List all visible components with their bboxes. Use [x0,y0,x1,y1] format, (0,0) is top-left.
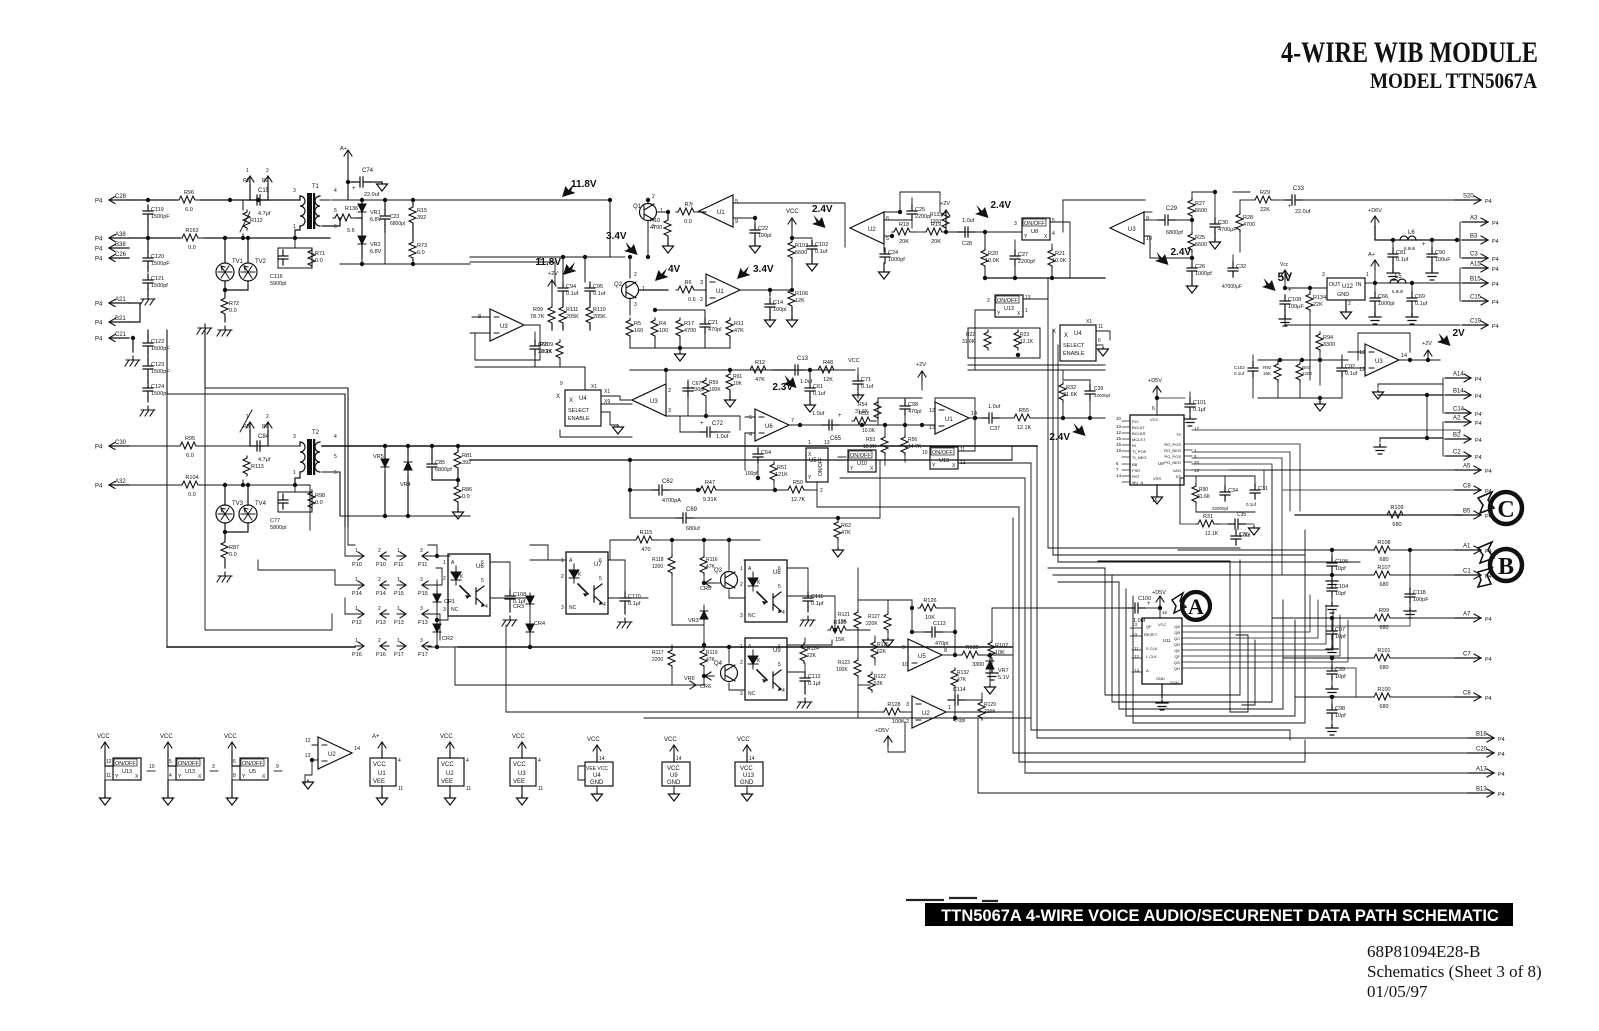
svg-text:6: 6 [1152,406,1155,412]
svg-text:R104: R104 [185,475,198,481]
svg-text:RO_POS: RO_POS [1164,442,1181,447]
svg-text:4: 4 [169,773,172,779]
svg-text:C34: C34 [1228,488,1238,494]
svg-text:31.6K: 31.6K [1063,392,1078,398]
svg-text:1: 1 [246,414,249,420]
svg-text:1: 1 [948,705,951,711]
svg-text:4.7μf: 4.7μf [258,457,271,463]
svg-text:0.1uf: 0.1uf [1345,371,1358,377]
svg-text:ON/OFF: ON/OFF [932,450,953,456]
svg-text:C103: C103 [1234,365,1245,370]
svg-text:P15: P15 [418,591,428,597]
svg-text:X: X [569,398,573,404]
svg-text:R29: R29 [1260,190,1270,196]
svg-text:GND: GND [1156,676,1165,681]
svg-text:C26: C26 [115,252,127,258]
svg-text:R121: R121 [838,612,850,618]
svg-text:U2: U2 [446,771,454,777]
svg-text:ON/OFF: ON/OFF [818,457,824,476]
svg-text:MCLKT: MCLKT [1132,437,1146,442]
svg-text:1.0uf: 1.0uf [988,404,1001,410]
svg-text:0.1μf: 0.1μf [628,601,641,607]
svg-text:5: 5 [169,759,172,765]
svg-text:100K: 100K [709,387,721,393]
svg-text:20K: 20K [931,239,941,245]
svg-text:+: + [1288,204,1292,210]
svg-text:3: 3 [668,408,671,414]
svg-text:R110: R110 [593,307,606,313]
svg-text:C111: C111 [811,594,823,600]
svg-text:R32: R32 [1066,385,1076,391]
svg-text:C27: C27 [1018,252,1028,258]
svg-text:5.6: 5.6 [347,228,355,234]
svg-text:C29: C29 [1166,206,1178,212]
svg-text:A2: A2 [1453,416,1461,422]
svg-text:C14: C14 [773,300,783,306]
svg-text:A7: A7 [1463,612,1471,618]
svg-text:R12: R12 [755,360,765,366]
svg-text:VCC: VCC [587,737,600,743]
svg-text:X1: X1 [1086,319,1092,325]
svg-text:1: 1 [397,577,400,583]
svg-text:U9: U9 [773,648,781,654]
svg-text:4: 4 [334,434,337,440]
svg-text:5: 5 [1052,218,1055,224]
svg-text:0.1uf: 0.1uf [566,291,579,297]
svg-text:5: 5 [749,415,752,421]
svg-text:C69: C69 [686,507,698,513]
svg-text:P16: P16 [376,652,386,658]
svg-text:VR1: VR1 [370,210,381,216]
svg-text:0.1uf: 0.1uf [1415,301,1428,307]
svg-text:C21: C21 [708,320,718,326]
svg-text:10K: 10K [995,650,1005,656]
svg-text:Q2: Q2 [614,282,623,288]
svg-text:VCC: VCC [512,734,525,740]
svg-text:R96: R96 [184,190,194,196]
svg-text:R129: R129 [984,702,996,708]
svg-text:L CLK: L CLK [1146,654,1157,659]
svg-text:P15: P15 [394,591,404,597]
svg-text:U3: U3 [1375,359,1383,365]
svg-text:10pf: 10pf [1335,674,1346,680]
svg-text:C123: C123 [151,362,164,368]
svg-text:C90: C90 [1435,250,1445,256]
svg-text:+: + [838,413,842,419]
svg-text:2: 2 [378,638,381,644]
svg-text:R21: R21 [1055,251,1065,257]
svg-text:S CLK: S CLK [1146,646,1158,651]
svg-text:4-WIRE WIB MODULE: 4-WIRE WIB MODULE [1281,36,1538,69]
svg-text:6: 6 [334,224,337,230]
svg-text:PCI: PCI [1132,419,1139,424]
svg-text:10K: 10K [838,619,848,625]
svg-text:VCC: VCC [740,766,753,772]
svg-text:P4: P4 [1492,282,1499,288]
svg-text:13: 13 [305,753,311,759]
svg-text:47K: 47K [957,677,967,683]
svg-text:P4: P4 [95,302,103,308]
svg-text:U4: U4 [1074,331,1082,337]
svg-text:2: 2 [266,168,269,174]
svg-text:C99: C99 [1335,667,1345,673]
svg-text:S20: S20 [1463,194,1474,200]
svg-text:6.0: 6.0 [186,453,194,459]
svg-text:R107: R107 [1377,565,1390,571]
svg-text:T9: T9 [1176,432,1181,437]
svg-text:470pl: 470pl [935,641,948,647]
svg-text:U3: U3 [650,399,658,405]
svg-text:P4: P4 [1498,772,1505,778]
svg-text:22K: 22K [807,653,817,659]
svg-text:3: 3 [420,577,423,583]
svg-text:1: 1 [293,470,296,476]
svg-text:R122: R122 [874,674,886,680]
svg-text:R17: R17 [684,321,694,327]
svg-text:0.1uf: 0.1uf [815,249,828,255]
svg-text:GND: GND [740,780,754,786]
svg-text:L6: L6 [1408,230,1415,236]
svg-text:6.8V: 6.8V [370,249,382,255]
svg-text:P4: P4 [1485,617,1492,623]
svg-text:2.4V: 2.4V [991,200,1012,211]
svg-text:P14: P14 [376,591,386,597]
svg-text:100pF: 100pF [1413,597,1429,603]
svg-text:C124: C124 [151,384,164,390]
svg-text:U4: U4 [579,396,587,402]
svg-text:VSS: VSS [1153,476,1161,481]
svg-text:P10: P10 [376,562,386,568]
svg-text:R99: R99 [533,307,543,313]
svg-text:10: 10 [1116,416,1122,421]
svg-text:22.0uf: 22.0uf [364,192,380,198]
svg-text:C74: C74 [362,168,374,174]
svg-text:3: 3 [420,638,423,644]
svg-text:P4: P4 [1485,469,1492,475]
svg-text:U1: U1 [717,210,725,216]
svg-text:C7: C7 [1463,652,1471,658]
svg-text:OUT: OUT [1329,282,1341,288]
svg-text:+: + [700,421,704,427]
svg-text:0.1uf: 0.1uf [1234,371,1245,376]
svg-text:CR4: CR4 [534,621,545,627]
svg-text:12: 12 [305,738,311,744]
svg-text:226K: 226K [984,709,996,715]
svg-text:1: 1 [1366,272,1369,278]
svg-text:BB: BB [1132,462,1138,467]
svg-text:U8: U8 [773,570,781,576]
svg-text:0.1uf: 0.1uf [1396,257,1409,263]
svg-text:C22: C22 [758,226,768,232]
svg-text:10: 10 [922,450,928,456]
svg-text:2: 2 [987,298,990,304]
svg-text:12.2K: 12.2K [863,444,877,450]
svg-text:1500pf: 1500pf [151,391,168,397]
svg-text:1.0uf: 1.0uf [812,411,825,417]
svg-text:C120: C120 [151,254,164,260]
svg-text:1: 1 [808,440,811,446]
svg-text:3: 3 [420,548,423,554]
svg-text:R103: R103 [795,243,808,249]
svg-text:C121: C121 [151,276,164,282]
svg-text:P2: P2 [262,178,269,184]
svg-text:11: 11 [538,786,543,792]
svg-text:0.1μf: 0.1μf [1193,407,1206,413]
svg-text:1: 1 [355,638,358,644]
svg-text:1200: 1200 [930,219,941,225]
svg-text:C1: C1 [1463,569,1471,575]
svg-text:VCC: VCC [513,762,526,768]
svg-text:U3: U3 [1128,227,1136,233]
svg-text:U8: U8 [1031,229,1038,235]
svg-text:0.0: 0.0 [229,552,237,558]
svg-text:5: 5 [886,236,889,242]
svg-text:U11: U11 [1163,638,1171,643]
svg-text:12.1K: 12.1K [1020,339,1034,345]
svg-text:P4: P4 [1475,421,1482,427]
svg-text:0.0: 0.0 [462,494,470,500]
svg-text:QD: QD [1174,642,1180,647]
svg-text:U10: U10 [857,461,867,467]
svg-text:100μF: 100μF [1288,304,1304,310]
svg-text:12: 12 [1116,430,1122,435]
svg-text:4700pA: 4700pA [662,498,681,504]
svg-text:+D5V: +D5V [875,728,889,734]
svg-text:1: 1 [355,606,358,612]
svg-text:X: X [870,466,874,472]
svg-text:Q1: Q1 [633,204,642,210]
svg-text:A21: A21 [115,297,126,303]
svg-text:47K: 47K [841,530,851,536]
svg-text:4.7μf: 4.7μf [258,211,271,217]
svg-text:0.1uf: 0.1uf [593,291,606,297]
svg-text:QC: QC [1174,636,1180,641]
svg-text:2: 2 [906,719,909,725]
svg-text:VEE: VEE [373,779,385,785]
svg-text:A32: A32 [115,479,126,485]
svg-text:TV4: TV4 [255,501,267,507]
svg-text:11.8V: 11.8V [535,257,561,268]
svg-text:1500pf: 1500pf [151,283,168,289]
svg-text:C23: C23 [390,214,399,220]
svg-text:C108: C108 [1288,297,1301,303]
svg-text:6: 6 [886,216,889,222]
svg-text:X: X [1017,311,1021,317]
svg-text:13: 13 [1025,295,1031,301]
svg-text:10: 10 [1146,236,1152,242]
svg-text:R25: R25 [1195,235,1205,241]
svg-text:R15: R15 [417,208,427,214]
svg-text:12.1K: 12.1K [1017,425,1032,431]
svg-text:3: 3 [293,434,296,440]
svg-text:3: 3 [293,188,296,194]
svg-text:B: B [1498,554,1514,580]
svg-text:U13: U13 [1004,306,1014,312]
svg-text:R27: R27 [1195,201,1205,207]
svg-text:1000pl: 1000pl [1378,301,1395,307]
svg-text:C116: C116 [270,274,283,280]
svg-text:C37: C37 [990,426,1000,432]
svg-text:TI_POS: TI_POS [1132,449,1147,454]
svg-text:A38: A38 [115,232,126,238]
svg-text:3: 3 [634,302,637,308]
svg-text:C122: C122 [151,339,164,345]
svg-text:C28: C28 [115,194,127,200]
svg-text:0.0: 0.0 [188,245,196,251]
svg-text:R87: R87 [229,545,239,551]
svg-text:14: 14 [1401,353,1407,359]
svg-text:B3: B3 [1470,234,1478,240]
svg-text:ENABLE: ENABLE [1063,351,1085,357]
svg-text:1: 1 [246,168,249,174]
svg-text:R94: R94 [1323,335,1333,341]
svg-text:1: 1 [293,224,296,230]
svg-text:CR1: CR1 [444,599,455,605]
svg-text:P13: P13 [376,620,386,626]
svg-text:CR5: CR5 [700,586,711,592]
svg-text:+2V: +2V [1422,341,1432,347]
svg-text:P4: P4 [1492,300,1499,306]
svg-text:2: 2 [668,388,671,394]
svg-text:P4: P4 [1475,412,1482,418]
svg-text:C14: C14 [1453,407,1465,413]
svg-text:C15: C15 [1470,295,1482,301]
svg-text:U1: U1 [716,289,724,295]
svg-text:1: 1 [355,577,358,583]
svg-text:R123: R123 [838,660,850,666]
svg-text:0.0: 0.0 [188,492,196,498]
svg-text:U9: U9 [1158,461,1164,466]
svg-text:C2: C2 [1453,450,1461,456]
svg-text:CR2: CR2 [442,636,453,642]
svg-text:MODEL TTN5067A: MODEL TTN5067A [1370,68,1537,93]
svg-text:6: 6 [1116,461,1119,466]
svg-text:R59: R59 [709,380,718,386]
svg-text:Y: Y [932,463,936,469]
svg-text:VCC: VCC [440,734,453,740]
svg-text:C104: C104 [1335,584,1348,590]
svg-text:15: 15 [1116,436,1122,441]
svg-text:BCLKR: BCLKR [1132,431,1145,436]
svg-text:R98: R98 [315,493,325,499]
svg-text:10K: 10K [733,381,743,387]
svg-text:2: 2 [1348,301,1351,307]
svg-text:C13: C13 [797,356,809,362]
svg-text:Schematics (Sheet 3 of 8): Schematics (Sheet 3 of 8) [1367,962,1542,981]
svg-text:X: X [952,463,956,469]
svg-text:1: 1 [397,606,400,612]
svg-text:R81: R81 [462,453,472,459]
svg-text:2: 2 [652,194,655,200]
svg-text:C101: C101 [1193,400,1206,406]
svg-text:10: 10 [149,764,155,770]
svg-text:0.1μf: 0.1μf [808,681,821,687]
svg-text:P4: P4 [95,337,103,343]
svg-text:13: 13 [824,440,830,446]
svg-text:11: 11 [106,773,111,779]
svg-text:C95: C95 [593,284,603,290]
svg-text:11: 11 [466,786,471,792]
svg-text:VEE: VEE [441,779,453,785]
svg-text:5: 5 [334,208,337,214]
svg-text:SELECT: SELECT [568,408,590,414]
svg-text:B15: B15 [1470,277,1481,283]
svg-text:C113: C113 [933,621,946,627]
svg-text:U13: U13 [743,773,755,779]
svg-text:C84: C84 [258,434,270,440]
svg-text:C3: C3 [1470,252,1478,258]
svg-text:P4: P4 [1475,377,1482,383]
svg-text:10.0K: 10.0K [862,428,876,434]
svg-text:7: 7 [690,203,693,209]
svg-text:01/05/97: 01/05/97 [1367,982,1428,1001]
svg-text:C119: C119 [151,207,164,213]
svg-text:GND: GND [590,780,604,786]
svg-text:13: 13 [1132,622,1138,627]
svg-text:3: 3 [906,702,909,708]
svg-text:C98: C98 [1335,706,1345,712]
svg-text:R11: R11 [734,321,744,327]
svg-text:2: 2 [378,577,381,583]
svg-text:C25: C25 [915,207,925,213]
svg-text:121K: 121K [775,472,788,478]
svg-text:B5: B5 [1463,509,1471,515]
svg-text:FSR: FSR [1132,468,1140,473]
svg-text:A+: A+ [340,146,347,152]
svg-text:T2: T2 [312,430,320,436]
svg-text:R6: R6 [684,280,691,286]
svg-text:160: 160 [634,328,643,334]
svg-text:4: 4 [398,758,401,764]
svg-text:2V: 2V [1453,328,1466,339]
svg-text:P13: P13 [394,620,404,626]
svg-text:VEE: VEE [513,779,525,785]
svg-text:4V: 4V [668,264,681,275]
svg-text:18: 18 [1116,448,1122,453]
svg-text:C24: C24 [888,250,898,256]
svg-text:VCC: VCC [373,762,386,768]
svg-text:VR5: VR5 [373,454,384,460]
svg-text:31.6K: 31.6K [855,409,869,415]
svg-text:-: - [1146,218,1148,224]
svg-text:U2: U2 [922,711,930,717]
svg-text:4700: 4700 [650,225,662,231]
svg-text:P4: P4 [1498,737,1505,743]
svg-text:VCC: VCC [1158,622,1167,627]
svg-text:3: 3 [1322,272,1325,278]
svg-text:R90: R90 [1199,487,1208,493]
svg-text:RESET: RESET [1144,632,1158,637]
svg-text:C105: C105 [1335,559,1348,565]
svg-text:R54: R54 [858,402,867,408]
svg-text:R163: R163 [185,228,198,234]
svg-text:P4: P4 [95,445,103,451]
svg-text:P4: P4 [1498,752,1505,758]
svg-text:14.7K: 14.7K [908,444,922,450]
svg-text:R20: R20 [988,251,998,257]
svg-text:VR2: VR2 [370,242,381,248]
svg-text:4: 4 [466,758,469,764]
svg-text:P4: P4 [95,484,103,490]
svg-text:R115: R115 [640,530,653,536]
svg-text:13: 13 [1359,350,1365,356]
svg-text:X: X [1064,333,1068,339]
svg-text:U12: U12 [1342,284,1354,290]
svg-text:C20: C20 [1476,747,1488,753]
svg-text:VCC: VCC [737,737,750,743]
svg-text:6800pf: 6800pf [435,467,452,473]
svg-text:15: 15 [1196,616,1202,621]
